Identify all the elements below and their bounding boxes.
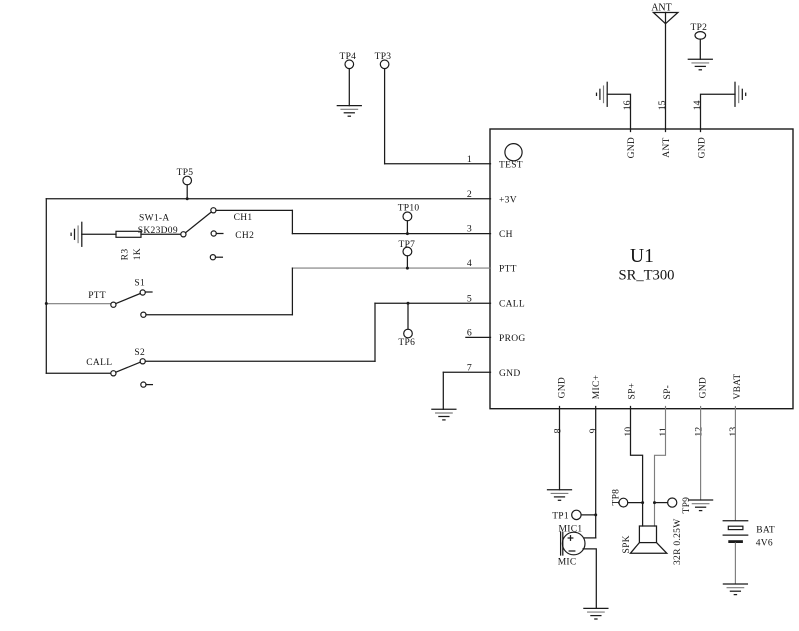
node CALL label (86, 358, 112, 368)
svg-text:8: 8 (552, 428, 563, 433)
U1 pin label +3V (499, 195, 517, 205)
test point TP6 (398, 329, 415, 348)
wire MIC- to ground (583, 549, 596, 609)
pin number 9 (588, 428, 599, 433)
svg-text:TP9: TP9 (682, 497, 692, 514)
U1 pin label PROG (499, 334, 526, 344)
U1 pin label GND (pin8) (558, 377, 568, 398)
svg-text:BAT: BAT (756, 526, 775, 536)
ground at pin7 (432, 409, 456, 420)
svg-text:GND: GND (698, 137, 708, 158)
svg-text:TP5: TP5 (177, 168, 194, 178)
test point TP5 (177, 168, 194, 185)
wire pin12 GND (700, 407, 702, 501)
svg-text:TP4: TP4 (340, 52, 357, 62)
svg-text:SP+: SP+ (627, 383, 637, 400)
pin number 8 (552, 428, 563, 433)
wire pin3 CH (292, 233, 490, 235)
wire battery to ground (734, 543, 736, 584)
U1 pin label PTT (499, 265, 517, 275)
test point TP1 (552, 510, 581, 521)
switch SW1-A SK23D09 (138, 208, 223, 260)
pin number 12 (693, 427, 704, 437)
wire ground to R3 (82, 233, 116, 235)
pin number 11 (658, 427, 669, 437)
wire TP5 stub (186, 185, 188, 199)
test point TP2 (691, 23, 708, 39)
ground at R3 (sideways) (71, 222, 82, 246)
U1 pin label SP+ (pin10) (627, 383, 637, 400)
wire TP6 stub (407, 302, 410, 330)
op-amp U1 body SR_T300 (490, 129, 793, 409)
U1 pin label GND (pin7) (499, 369, 520, 379)
svg-text:TP8: TP8 (611, 489, 621, 506)
U1 pin label GND (pin16) (627, 137, 637, 158)
svg-text:U1: U1 (630, 246, 654, 267)
pin number 7 (467, 362, 472, 373)
svg-text:ANT: ANT (651, 3, 672, 14)
svg-text:PTT: PTT (499, 265, 517, 275)
speaker SPK 32R 0.25W (622, 518, 683, 565)
ground at battery (723, 584, 747, 595)
svg-text:13: 13 (728, 427, 739, 437)
wire left +3V rail vertical (45, 199, 47, 374)
wire pin2 +3V rail (46, 198, 490, 200)
svg-text:11: 11 (658, 427, 669, 437)
svg-text:PTT: PTT (88, 291, 106, 301)
wire TP7 stub (406, 256, 409, 270)
svg-text:+3V: +3V (499, 195, 517, 205)
battery BAT 4V6 (723, 521, 775, 549)
U1 pin label ANT (pin15) (662, 137, 672, 157)
node CH1 (234, 213, 253, 223)
test point TP8 (611, 489, 628, 507)
pin number 3 (467, 224, 472, 235)
wire CH1 to pin3 (216, 210, 292, 233)
wire pin9 MIC+ (585, 407, 596, 538)
wire TP9 stub (653, 501, 668, 504)
svg-text:CH1: CH1 (234, 213, 253, 223)
svg-text:TEST: TEST (499, 160, 523, 170)
svg-text:SK23D09: SK23D09 (138, 226, 178, 236)
svg-text:MIC: MIC (558, 558, 577, 568)
ground at pin12 (689, 500, 713, 511)
U1 pin label VBAT (pin13) (733, 373, 743, 399)
test point TP4 (340, 52, 357, 69)
svg-text:SPK: SPK (622, 535, 632, 553)
wire pin16 GND (607, 94, 630, 131)
wire pin10 SP+ (631, 407, 643, 527)
pin number 13 (728, 427, 739, 437)
pin number 1 (467, 154, 472, 165)
wire TP8 stub (628, 501, 644, 504)
wire pin15 ANT (665, 13, 667, 132)
svg-text:12: 12 (693, 427, 704, 437)
test point TP3 (375, 52, 392, 69)
svg-text:15: 15 (657, 100, 668, 110)
wire pin14 GND (701, 94, 736, 131)
svg-text:ANT: ANT (662, 137, 672, 157)
svg-text:S2: S2 (134, 348, 145, 358)
svg-text:GND: GND (558, 377, 568, 398)
U1 pin label GND (pin12) (698, 377, 708, 398)
switch S2 (111, 348, 153, 387)
svg-text:TP7: TP7 (399, 240, 416, 250)
ground at TP2 (688, 59, 712, 70)
pin number 6 (467, 328, 472, 339)
ground at TP4 (337, 106, 361, 117)
wire TP3 to pin1 (384, 69, 386, 164)
svg-text:16: 16 (622, 100, 633, 110)
pin number 2 (467, 189, 472, 200)
wire TP2 to ground (699, 39, 701, 59)
test point TP9 (668, 497, 693, 514)
svg-text:SR_T300: SR_T300 (619, 268, 675, 284)
svg-text:MIC+: MIC+ (592, 375, 602, 400)
antenna ANT symbol (651, 3, 678, 24)
microphone MIC1 (558, 524, 585, 567)
svg-text:MIC1: MIC1 (559, 524, 583, 534)
wire R3 to SW1-A common (141, 233, 181, 235)
svg-text:CALL: CALL (499, 300, 525, 310)
svg-text:TP10: TP10 (398, 203, 420, 213)
svg-text:TP2: TP2 (691, 23, 708, 33)
U1 pin label CH (499, 230, 513, 240)
wire TP1 stub (581, 513, 597, 516)
switch S1 (111, 279, 152, 318)
svg-text:4V6: 4V6 (756, 539, 773, 549)
svg-text:GND: GND (499, 369, 520, 379)
pin number 10 (623, 427, 634, 437)
pin number 16 (622, 100, 633, 110)
wire pin11 SP- (655, 407, 666, 527)
wire pin6 PROG stub (466, 336, 491, 338)
node CH2 (235, 231, 254, 241)
svg-text:PROG: PROG (499, 334, 526, 344)
junction TP5/+3V (186, 197, 189, 200)
svg-text:CALL: CALL (86, 358, 112, 368)
svg-text:GND: GND (627, 137, 637, 158)
svg-text:32R 0.25W: 32R 0.25W (673, 518, 683, 565)
svg-text:9: 9 (588, 428, 599, 433)
test point TP7 (399, 240, 416, 256)
wire S2 to pin5 (145, 303, 375, 361)
test point TP10 (398, 203, 420, 221)
resistor R3 1K (116, 231, 143, 260)
svg-text:10: 10 (623, 427, 634, 437)
wire rail to S2 (46, 372, 111, 374)
svg-text:TP1: TP1 (552, 512, 569, 522)
ground at pin16 (sideways) (597, 82, 608, 106)
U1 pin label GND (pin14) (698, 137, 708, 158)
svg-text:GND: GND (698, 377, 708, 398)
wire TP4 to ground (348, 69, 350, 106)
svg-text:SP-: SP- (663, 385, 673, 400)
wire pin5 CALL (375, 302, 491, 304)
wire pin4 PTT (292, 267, 490, 269)
ground at pin14 (sideways) (735, 82, 746, 106)
wire pin13 VBAT (734, 407, 736, 521)
svg-text:CH: CH (499, 230, 513, 240)
wire pin1 TEST (385, 163, 491, 165)
svg-text:VBAT: VBAT (733, 373, 743, 399)
U1 pin label TEST (499, 160, 523, 170)
wire TP10 stub (406, 221, 409, 235)
svg-text:SW1-A: SW1-A (139, 213, 170, 223)
U1 pin label CALL (499, 300, 525, 310)
svg-text:TP6: TP6 (398, 338, 415, 348)
svg-text:1K: 1K (133, 248, 143, 260)
svg-text:TP3: TP3 (375, 52, 392, 62)
U1 pin label MIC+ (pin9) (592, 375, 602, 400)
pin number 14 (692, 100, 703, 110)
svg-text:S1: S1 (134, 279, 145, 289)
wire rail to S1 (45, 302, 111, 305)
ground at pin8 (548, 490, 572, 501)
wire pin7 GND (443, 372, 490, 409)
svg-text:14: 14 (692, 100, 703, 110)
pin number 4 (467, 258, 472, 269)
wire S1 to pin4 (146, 268, 292, 315)
node PTT label (88, 291, 106, 301)
U1 pin label SP- (pin11) (663, 385, 673, 400)
svg-text:R3: R3 (121, 249, 131, 261)
pin number 5 (467, 293, 472, 304)
svg-text:CH2: CH2 (235, 231, 254, 241)
ground at MIC (584, 608, 608, 619)
pin number 15 (657, 100, 668, 110)
wire pin8 GND (559, 407, 561, 490)
